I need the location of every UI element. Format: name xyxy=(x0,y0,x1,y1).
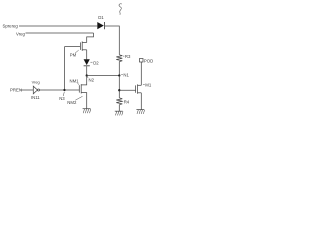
label N3 with pointer xyxy=(59,92,65,101)
svg-text:PM: PM xyxy=(70,53,77,58)
svg-text:PREN: PREN xyxy=(10,87,22,92)
wire N2 to N1 xyxy=(87,75,120,77)
wire gate column down to N3 node xyxy=(64,47,66,90)
wire M1 source to ground xyxy=(140,93,142,110)
svg-text:NM2: NM2 xyxy=(67,100,77,105)
wire PM drain to D2 xyxy=(86,50,88,60)
svg-text:Sprereg: Sprereg xyxy=(3,23,19,28)
label N1 with dash xyxy=(121,73,129,78)
ground under NM1 xyxy=(83,109,91,114)
transistor NM1 (NMOS) xyxy=(79,76,86,109)
inverter IN11 xyxy=(33,86,39,94)
diode D1 xyxy=(97,15,104,30)
wire D1 cathode to corner xyxy=(105,26,119,55)
wire PREN to inverter xyxy=(21,89,34,91)
squiggle mark top right xyxy=(119,4,122,15)
label D2 with dash xyxy=(90,60,99,65)
wire Vreg jog to PM source xyxy=(87,33,94,43)
label M1 with dash xyxy=(143,83,152,88)
svg-text:Vreg: Vreg xyxy=(32,79,40,84)
wire inverter output to N3 xyxy=(40,89,65,91)
port POD pad xyxy=(140,58,154,63)
transistor M1 (NMOS) xyxy=(136,84,142,93)
svg-text:N2: N2 xyxy=(89,77,95,82)
label R3 with dash xyxy=(123,54,131,59)
node M1 gate junction dot xyxy=(118,89,120,91)
wire D2 cathode to N2 xyxy=(86,66,88,75)
resistor R4 xyxy=(116,98,122,105)
svg-text:NM1: NM1 xyxy=(70,78,80,83)
label N2 with pointer xyxy=(87,76,95,82)
wire PM gate line xyxy=(65,46,81,48)
svg-text:D2: D2 xyxy=(93,60,99,65)
wire to M1 gate xyxy=(119,89,135,91)
svg-text:D1: D1 xyxy=(98,15,104,20)
node N1 junction dot xyxy=(118,74,120,76)
wire Vreg rail xyxy=(26,32,94,34)
ground under M1 xyxy=(136,110,144,114)
label PM with pointer xyxy=(70,50,79,58)
svg-text:N1: N1 xyxy=(123,73,129,78)
wire R3 to N1 xyxy=(118,62,120,76)
svg-text:Vreg: Vreg xyxy=(16,31,26,36)
svg-text:N3: N3 xyxy=(59,96,65,101)
diode D2 xyxy=(84,59,90,66)
wire R4 to ground xyxy=(118,105,120,112)
label R4 with dash xyxy=(121,99,129,104)
node N3 junction dot xyxy=(63,89,65,91)
svg-text:R3: R3 xyxy=(125,54,131,59)
wire Sprereg rail xyxy=(19,25,97,27)
node N2 junction dot xyxy=(86,74,88,76)
svg-text:M1: M1 xyxy=(145,83,152,88)
svg-text:POD: POD xyxy=(144,58,153,63)
wire N3 to NM1 gate xyxy=(65,89,80,91)
label NM1 with pointer xyxy=(70,78,80,85)
label NM2 with pointer xyxy=(67,96,82,105)
transistor PM (PMOS) xyxy=(80,41,86,51)
wire POD to M1 drain xyxy=(140,62,142,85)
svg-text:IN11: IN11 xyxy=(31,95,40,100)
ground under R4 xyxy=(115,111,123,115)
resistor R3 xyxy=(116,55,122,62)
wire N1 down to R4 xyxy=(118,76,120,98)
svg-text:R4: R4 xyxy=(124,99,130,104)
